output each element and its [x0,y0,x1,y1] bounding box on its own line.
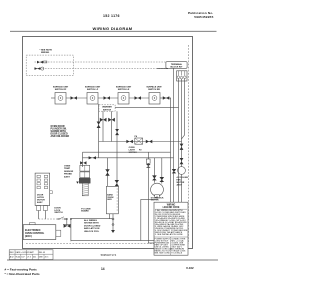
wire down through warmer to lamp line [116,111,118,186]
electronic oven control EOC [23,225,56,240]
door lock motor M [151,183,164,196]
wires from latch tabs [38,211,40,220]
heater element box [106,186,118,214]
connector on oven lamp drop [115,129,119,135]
junction door sw A [66,218,68,220]
connector on element feed [105,169,109,175]
svg-text:ALL WIRING: ALL WIRING [84,219,97,222]
connector plug between S2 S3 [104,96,111,99]
latch terminal tab 2 [43,206,47,211]
svg-text:5. SEE INSTALLATION GUIDE: 5. SEE INSTALLATION GUIDE [155,233,183,236]
latch assembly pins left column [37,175,48,188]
svg-text:JT 4: JT 4 [27,256,31,258]
svg-text:BY APP: BY APP [27,251,34,254]
legend notes box [154,202,188,255]
bottom run from door area [71,240,141,242]
latch motor label inside [37,195,45,205]
svg-text:SWITCH RF: SWITCH RF [55,89,67,91]
wire down from label right [111,111,113,141]
door lock motor label [151,197,164,201]
connector above door lock motor right [160,177,165,182]
wire L2 drop with jog [182,79,185,167]
lamp line connector right [146,140,153,143]
switch row wire 1-2 [66,97,87,99]
surface unit element row 2 wire [34,68,166,70]
wire from lower distribution to element [107,158,109,187]
svg-text:SHOWN WITH: SHOWN WITH [84,223,99,225]
terminal block body [177,71,187,81]
oven sensor top wire [82,152,84,167]
oven sensor label [64,166,74,179]
surface unit switch S2 [87,93,98,105]
EOC right tab [56,230,61,236]
connector on L2 wire [180,158,184,164]
header rule [10,30,217,32]
wire from element box bottom [109,214,111,219]
connector on merged wire [180,144,184,150]
svg-text:AND LATCH IN: AND LATCH IN [84,227,100,230]
svg-text:ASSY: ASSY [177,183,183,186]
svg-text:SENSOR: SENSOR [64,171,74,173]
wire down from label left [102,111,104,141]
chassis ground arrow [111,230,115,233]
wire from fan motor to legend [181,174,183,202]
svg-text:051: 051 [33,256,36,258]
surface unit dashed enclosure [26,55,73,76]
schematic outer border [23,37,193,249]
svg-text:DATE + ECN: DATE + ECN [16,251,28,254]
connector on right label wire [108,118,115,122]
svg-text:DOOR CLOSED: DOOR CLOSED [84,225,101,227]
svg-text:ASSY: ASSY [37,201,43,204]
surface unit switch S4 [149,93,160,105]
svg-text:SWITCH LR: SWITCH LR [118,89,130,91]
svg-text:240V: 240V [107,198,112,201]
svg-text:9C44: 9C44 [16,256,21,258]
wire L1 drop [178,79,180,203]
svg-text:A 02: A 02 [10,255,14,258]
lamp line connector left [126,140,132,143]
bottom run wires to legend [141,240,154,242]
surface unit row 2 connector and receptacle circle [35,67,44,70]
svg-text:MIN. SIZE CORD: MIN. SIZE CORD [155,252,171,254]
element ground wire [112,214,114,230]
svg-text:SWITCH LF: SWITCH LF [87,89,99,91]
terminal block label box [166,62,187,69]
oven sensor plug housing upper [80,165,90,171]
svg-text:5995327174: 5995327174 [101,253,117,257]
svg-text:SWITCH: SWITCH [54,212,63,214]
svg-text:BLOCK KIT: BLOCK KIT [171,66,184,68]
label plate dashed box under S3 [99,105,115,111]
oven sensor plug housing lower [80,172,90,178]
terminal ring lower [112,224,114,226]
legend bottom columns [170,237,172,255]
svg-text:* = Non-Illustrated Parts: * = Non-Illustrated Parts [5,272,40,276]
element box internal blob [107,194,113,202]
supply wire from label box [173,68,175,202]
switch row wire 2-3 [98,97,118,99]
terminal ring upper [112,218,114,220]
svg-text:152 1176: 152 1176 [103,14,120,18]
wire lower to dashed bus [63,224,71,226]
footer rule [7,259,218,261]
wire lock switch to right bus [71,218,112,220]
surface unit switch S1 [55,93,66,105]
junction door sw B [70,218,72,220]
connector plug right of S4 [163,96,170,99]
svg-text:107: 107 [21,256,24,258]
EOC top tab [30,223,35,225]
svg-text:AND UNLOCKED: AND UNLOCKED [51,135,70,138]
thermal fuse box [146,159,150,163]
switch row wire 3-4 [129,97,149,99]
svg-text:WIRING DIAGRAM: WIRING DIAGRAM [92,26,132,31]
oven sensor probe shaft [82,183,88,196]
surface unit element row 1 wire [35,61,167,63]
svg-text:V-162: V-162 [186,266,194,270]
connector below thermal fuse [146,164,151,168]
convection fan label [177,176,189,186]
svg-text:SWITCH RR: SWITCH RR [148,89,160,91]
door lock switch label [54,207,63,214]
svg-text:TEMP: TEMP [64,168,71,170]
oven light switch label [129,147,138,154]
door lock switch contacts dashed [39,218,67,220]
wire N drop [181,79,183,139]
latch motor assembly body [35,173,50,205]
connector above door lock motor left [152,175,157,180]
sensor connector [80,161,86,164]
latch terminal tab 1 [37,206,41,211]
interconnect wire below switch row [115,106,178,108]
parts table bottom left [9,250,53,260]
connector plug between S3 S4 [135,96,142,99]
fitting pointer mark [76,182,79,184]
svg-text:REL 09: REL 09 [39,252,45,254]
oven lamp feed wire [99,141,182,143]
connector on left label wire [100,118,107,122]
svg-text:OVEN: OVEN [64,166,71,168]
switch row left stub [51,97,55,99]
wire into thermal fuse [147,152,149,159]
svg-text:MOTOR: MOTOR [151,200,159,202]
oven door text note [51,126,70,138]
lower distribution wire H2 [83,157,174,159]
connector plug between S1 S2 [71,96,78,99]
wiring notes text [84,219,101,233]
wires into door lock motor [153,158,155,183]
cabinet inner dashed border bottom [26,243,188,245]
connector on supply wire [172,169,176,173]
wire down from S2 [98,104,100,158]
svg-text:TO 20 IN-LB: TO 20 IN-LB [171,252,183,254]
svg-text:PROBE: PROBE [64,174,72,176]
wire down from switch row to lamp line [170,98,172,202]
svg-text:SWITCH: SWITCH [103,109,112,111]
svg-text:TERMINAL: TERMINAL [171,63,183,66]
latch assembly notch [50,191,53,194]
svg-text:LEGEND CODE: LEGEND CODE [163,207,180,209]
oven lamp box [135,138,143,144]
row 2 right solid segment [157,68,168,70]
surface unit switch S3 [118,93,129,105]
connector near EOC [64,224,71,227]
svg-text:# = Fast-moving Parts: # = Fast-moving Parts [5,268,38,272]
connector on S2 drop wire [97,122,101,129]
convection fan motor [178,167,186,175]
cabinet inner dashed border right [187,45,189,244]
connector above element box [115,180,119,186]
motor return wire [141,196,157,241]
switch row wire 4-right [160,97,171,99]
svg-text:DB8: DB8 [39,256,43,258]
surface unit row 1 connector pair [37,61,47,64]
terminal pins [178,71,180,76]
svg-text:20 5: 20 5 [45,256,49,258]
upper feed wire H1 [83,151,171,153]
svg-text:(EOC): (EOC) [25,235,32,238]
svg-text:WIRING: WIRING [41,52,49,54]
oven sensor hex fitting [79,178,90,183]
svg-text:UNLOCK POS.: UNLOCK POS. [84,231,100,233]
surface unit switch labels [53,86,163,92]
svg-text:WARMER: WARMER [102,106,112,109]
connector on lower distribution wire [89,156,96,159]
notes text above bus [81,208,91,212]
legend body text [155,209,188,236]
svg-text:14: 14 [101,267,105,271]
svg-text:BOARD: BOARD [81,210,89,213]
wire door area to EOC right [66,219,68,226]
svg-text:ASSY: ASSY [64,175,70,178]
wire from thermal fuse down [147,163,149,243]
terminal circles L1 N L2 [177,76,180,79]
svg-text:5995459955: 5995459955 [194,15,213,19]
